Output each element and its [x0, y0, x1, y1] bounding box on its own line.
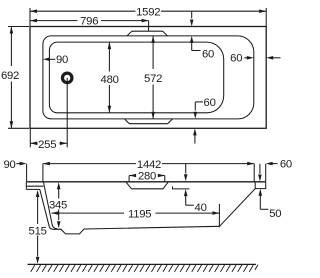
svg-text:50: 50 — [269, 208, 281, 220]
dimension 692 — [8, 26, 29, 28]
dimension 515 (overall height) — [36, 190, 40, 197]
tub bottom with drain bump — [54, 226, 220, 234]
right slope of tub — [220, 189, 256, 227]
svg-text:60: 60 — [202, 49, 214, 61]
inner wall slope left — [43, 182, 57, 229]
svg-text:280: 280 — [138, 170, 156, 182]
dimension 1195 (bottom length) — [52, 212, 125, 214]
svg-text:692: 692 — [1, 70, 19, 82]
tub outer rim rectangle — [30, 27, 266, 129]
leader 90 (drain offset) — [43, 58, 50, 62]
right end cap — [255, 182, 266, 189]
dimension 1592 — [29, 8, 31, 26]
svg-text:345: 345 — [49, 199, 67, 211]
drain centerline — [66, 78, 68, 147]
svg-text:255: 255 — [38, 139, 56, 151]
svg-text:480: 480 — [101, 74, 119, 86]
rim top line — [26, 181, 265, 183]
bowl inner edge rounded rect — [49, 42, 223, 113]
svg-text:572: 572 — [144, 73, 162, 85]
dimension 796 — [30, 20, 78, 22]
rim grip recess — [126, 182, 168, 189]
svg-text:796: 796 — [80, 15, 98, 27]
dimension 50 (end cap height) — [259, 164, 261, 174]
svg-text:90: 90 — [56, 54, 68, 66]
svg-text:60: 60 — [204, 97, 216, 109]
dimension 255 (drain position) — [29, 128, 31, 147]
dimension 280 (grip recess) — [129, 175, 136, 177]
svg-text:90: 90 — [3, 159, 15, 171]
svg-text:60: 60 — [280, 158, 292, 170]
dimension 345 (inner depth) — [57, 182, 61, 189]
svg-text:60: 60 — [230, 53, 242, 65]
bottom grip bump trapezoid — [125, 119, 173, 124]
svg-text:1442: 1442 — [137, 159, 161, 171]
dimension 60 top-right (rim width) — [191, 11, 193, 18]
dimension 480 — [108, 42, 110, 71]
top grip bump trapezoid — [127, 31, 168, 36]
svg-text:40: 40 — [195, 202, 207, 214]
floor hatching — [31, 265, 258, 272]
left end cap block — [25, 182, 27, 190]
rim inner edge rounded rect — [43, 36, 254, 119]
drain waste circle — [62, 73, 72, 83]
svg-text:1592: 1592 — [136, 7, 160, 19]
dimension 572 — [152, 36, 154, 69]
svg-text:1195: 1195 — [128, 208, 151, 220]
dimension 60 side top-right (rim overhang right) — [266, 162, 273, 166]
inner ledge tick — [173, 186, 190, 189]
floor line — [28, 263, 257, 265]
outer wall slope left — [40, 189, 54, 229]
dimension 40 — [185, 164, 187, 174]
dimension 1442 — [43, 163, 136, 165]
